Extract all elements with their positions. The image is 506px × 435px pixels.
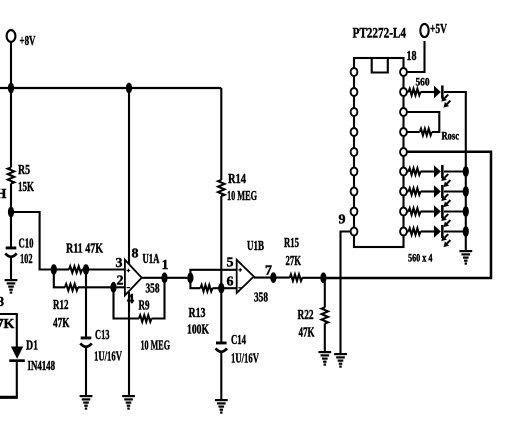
pin 18 label [407,49,417,64]
wire R22 down [324,278,326,308]
junction bus / U1A pin8 [126,83,132,94]
wire oscillator loop [404,112,440,132]
wire LED row 3 to bus [444,210,466,212]
IC pin circles [351,68,407,236]
capacitor C13 1U/16V [80,328,122,365]
svg-text:3: 3 [116,256,123,271]
svg-text:R22: R22 [298,308,314,323]
svg-text:1U/16V: 1U/16V [231,352,259,367]
svg-text:R12: R12 [53,298,69,313]
svg-text:10 MEG: 10 MEG [227,189,257,204]
junction LED bus row 1 [463,166,469,177]
svg-text:102: 102 [20,252,33,267]
wire VT LED to bus [444,92,466,172]
svg-text:R14: R14 [228,172,246,187]
wire U1B output [254,277,274,279]
svg-text:6: 6 [227,275,234,290]
wire top +8V bus [0,87,221,89]
wire R11 to junction [82,268,86,270]
pin 1 label [162,258,169,273]
wire to R15 [273,277,289,279]
wire to R11 [54,268,69,270]
svg-text:15K: 15K [18,180,34,195]
wire LED cathode bus [465,172,467,251]
svg-text:7K: 7K [0,317,15,332]
svg-text:47K: 47K [53,316,70,331]
svg-text:100K: 100K [187,323,209,338]
wire D1 to bottom rail [16,362,18,397]
LED row 2 [421,185,451,207]
pin 7 label [265,264,272,279]
resistor 560 row 1 [404,168,421,174]
svg-text:D1: D1 [26,339,38,354]
terminal +8V [7,30,36,88]
resistor R22 47K [298,308,328,341]
op-amp U1B 358 [237,239,268,306]
svg-text:IN4148: IN4148 [28,359,56,374]
resistor R9 10 MEG [139,299,171,354]
svg-text:R9: R9 [139,299,150,314]
svg-text:27K: 27K [286,254,302,269]
wire junction to U1A pin3 [86,268,125,270]
wire signal to PT2272 DIN [323,152,491,278]
junction LED bus row 4 [463,226,469,237]
pin 6 label [227,275,234,290]
wire node to R11 [11,212,54,270]
wire R12 to pin2 junction [78,286,114,288]
wire U1A output [142,277,165,279]
wire left vertical to R5 [10,88,12,168]
svg-text:Rosc: Rosc [442,131,460,143]
wire node to C10 [10,212,12,247]
resistor R12 47K [53,284,78,331]
junction bus / left vertical [8,83,14,94]
pin 8 label [132,247,139,262]
wire LED row 4 to bus [444,230,466,232]
svg-text:C14: C14 [231,333,246,348]
wire DIN stub [404,151,411,153]
partial label 7K (cut) [0,317,15,332]
svg-text:358: 358 [254,291,268,306]
pin 4 label [127,292,134,307]
wire R14 from bus [220,88,222,180]
svg-text:358: 358 [146,282,160,297]
resistor R14 10 MEG [218,172,257,204]
junction LED bus row 3 [463,206,469,217]
svg-text:2: 2 [117,274,124,289]
wire LED row 2 to bus [444,190,466,192]
capacitor C14 1U/16V [216,333,259,367]
pin 9 label [339,213,346,228]
svg-text:U1A: U1A [143,252,161,267]
svg-text:9: 9 [339,213,346,228]
svg-text:560 x 4: 560 x 4 [408,251,433,265]
svg-text:47K: 47K [299,326,315,341]
pin 3 label [116,256,123,271]
wire junction to C14 [220,288,222,341]
svg-text:560: 560 [416,77,430,89]
partial label H (cut) [0,187,7,202]
resistor 560 (VT) [404,77,430,96]
resistor 560 row 4 [404,228,421,234]
wire feedback from pin2 junction [114,287,140,318]
wire bottom rail (cut) [0,396,18,399]
svg-text:8: 8 [132,247,139,262]
wire junction to U1B pin6 [221,287,236,289]
wire R5 to node [10,184,12,213]
junction R13/R14/C14/pin6 [218,283,224,294]
svg-text:U1B: U1B [247,239,264,254]
wire R22 to ground [324,324,326,352]
svg-text:8: 8 [0,295,4,310]
svg-text:18: 18 [407,49,417,64]
svg-text:C13: C13 [95,328,110,343]
LED VT [421,85,451,107]
wire feedback to output [152,278,165,319]
label 560 x 4 [408,251,433,265]
resistor 560 row 2 [404,188,421,194]
wire LED row 1 to bus [444,170,466,172]
wire output to pin5 junction [165,277,191,279]
ground C13 [80,395,93,410]
ground C10 [5,279,18,294]
IC U2 PT2272-L4 body [353,26,407,248]
svg-text:C10: C10 [19,237,34,252]
resistor R15 27K [284,236,302,281]
op-amp U1A 358 [125,252,160,297]
junction U1B pin5 branch [187,272,193,283]
resistor R11 47K [66,242,103,273]
ground R22 [318,351,331,366]
svg-text:R5: R5 [18,163,30,178]
node junction left [8,207,14,218]
svg-text:R15: R15 [284,236,299,251]
svg-text:10 MEG: 10 MEG [141,339,171,354]
wire R15 to junction [302,277,323,279]
junction R11/R12 left [51,264,57,275]
wire U1A pin4 to ground [128,292,130,395]
wire R13 to junction [212,287,221,289]
LED row 3 [421,205,451,227]
wire C13 vertical [85,270,87,337]
wire D1 branch from edge [0,314,17,347]
resistor 560 row 3 [404,208,421,214]
wire U1A pin8 from bus [128,88,130,264]
wire C10 to ground [10,258,12,279]
wire C13 to ground [85,348,87,395]
svg-text:R11 47K: R11 47K [66,242,103,257]
wire pin9 to ground [341,232,355,354]
svg-text:1U/16V: 1U/16V [94,350,122,365]
LED row 4 [421,225,451,247]
junction LED bus row 2 [463,186,469,197]
svg-text:PT2272-L4: PT2272-L4 [353,26,407,42]
ground C14 [215,399,228,414]
resistor Rosc [404,129,460,143]
svg-text:H: H [0,187,7,202]
wire R12 branch [54,270,65,288]
resistor R5 15K [8,163,34,195]
junction U1B output [270,272,276,283]
terminal +5V [404,22,448,72]
svg-text:1: 1 [162,258,169,273]
svg-text:+5V: +5V [430,22,447,37]
wire to U1B pin5 [190,270,236,278]
partial label 8 (cut) [0,295,4,310]
LED row 1 [421,165,451,187]
diode D1 IN4148 [9,339,55,374]
junction R22 tap [320,272,326,283]
ground pin9 [334,353,347,368]
junction R11 right / C13 tap [83,264,89,275]
resistor R13 100K [187,285,212,338]
pin 2 label [117,274,124,289]
junction U1A output [161,272,167,283]
svg-text:R13: R13 [189,306,206,321]
ground U1A pin4 [122,395,135,410]
wire C14 to ground [220,353,222,399]
svg-text:+8V: +8V [20,34,36,49]
wire junction to U1A pin2 [114,286,125,288]
wire junction down to R13 [190,278,200,288]
junction U1A pin2 / R9 [110,282,116,293]
wire R14 to junction [220,196,222,288]
pin 5 label [227,256,234,271]
svg-text:5: 5 [227,256,234,271]
ground LED bus [459,250,472,265]
capacitor C10 102 [5,237,33,268]
